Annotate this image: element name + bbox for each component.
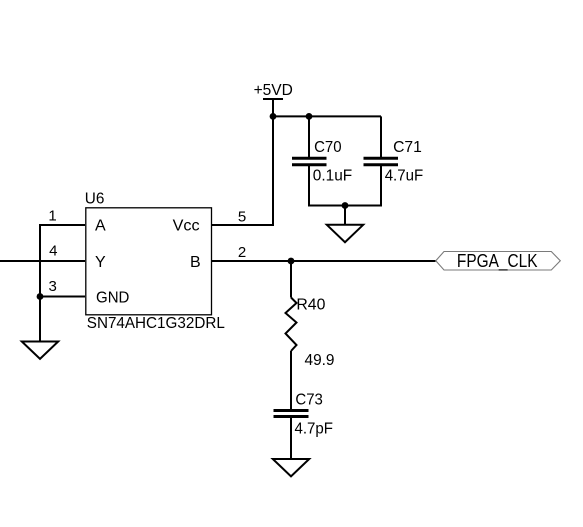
resistor R40 zigzag: [286, 298, 297, 352]
node: junction dot at bottom rail: [342, 202, 349, 209]
ground symbol under capacitors: [327, 225, 363, 242]
svg-text:C71: C71: [393, 139, 422, 156]
capacitor C73 plates: [274, 409, 309, 412]
svg-text:FPGA_CLK: FPGA_CLK: [457, 251, 538, 272]
wire: net to pin Y from left edge: [0, 260, 85, 262]
capacitor C71 top lead: [380, 116, 382, 157]
wire: vertical tie from pin A to GND net: [39, 224, 41, 297]
capacitor C70 plates: [292, 157, 327, 160]
capacitor C71 plates: [364, 157, 399, 160]
ground symbol below GND pin: [22, 342, 58, 359]
svg-text:49.9: 49.9: [305, 352, 335, 369]
wire: pin A horizontal: [40, 224, 85, 226]
svg-text:5: 5: [238, 208, 246, 225]
off-page connector FPGA_CLK flag: [436, 252, 561, 271]
svg-text:Vcc: Vcc: [173, 218, 200, 235]
wire: bar stub: [272, 99, 274, 116]
capacitor C70 top lead: [308, 116, 310, 157]
wire: pin 5 Vcc to +5VD riser: [212, 224, 273, 226]
svg-text:B: B: [190, 254, 201, 271]
node: junction dot at R40 tap: [288, 258, 295, 265]
svg-text:Y: Y: [95, 254, 106, 271]
wire: pin GND horizontal: [40, 296, 85, 298]
svg-text:2: 2: [238, 244, 246, 261]
wire: top rail to capacitors: [273, 115, 381, 117]
svg-text:GND: GND: [96, 290, 129, 307]
svg-text:4.7pF: 4.7pF: [295, 421, 334, 438]
svg-text:1: 1: [48, 208, 56, 225]
wire: pin 2 B output to FPGA_CLK: [212, 260, 436, 262]
IC U6 SN74AHC1G32DRL body: [86, 208, 212, 315]
resistor R40 bottom lead: [290, 351, 292, 409]
capacitor C71 bottom lead: [380, 166, 382, 207]
wire: stub down to ground symbol: [39, 297, 41, 342]
power symbol +5VD bar: [263, 98, 283, 100]
svg-text:C70: C70: [314, 139, 342, 156]
wire: bottom rail joining C70 and C71: [309, 205, 381, 207]
svg-text:C73: C73: [295, 392, 323, 409]
wire: +5VD riser vertical: [272, 116, 274, 226]
svg-text:U6: U6: [85, 191, 105, 208]
capacitor C70 bottom lead: [308, 166, 310, 207]
svg-text:R40: R40: [296, 297, 325, 314]
node: junction dot at C70 tap: [306, 113, 313, 120]
resistor R40 top lead: [290, 261, 292, 298]
svg-text:3: 3: [49, 278, 57, 295]
svg-text:+5VD: +5VD: [254, 82, 293, 99]
svg-text:4: 4: [49, 243, 57, 260]
ground symbol below C73: [273, 459, 309, 476]
node: junction dot at GND wire: [37, 293, 44, 300]
svg-text:4.7uF: 4.7uF: [385, 168, 424, 185]
capacitor C73 bottom lead: [290, 418, 292, 459]
node: junction dot at +5VD: [270, 113, 277, 120]
wire: stub to ground under capacitors: [344, 206, 346, 225]
svg-text:0.1uF: 0.1uF: [313, 168, 353, 185]
svg-text:SN74AHC1G32DRL: SN74AHC1G32DRL: [87, 315, 225, 332]
svg-text:A: A: [95, 218, 106, 235]
